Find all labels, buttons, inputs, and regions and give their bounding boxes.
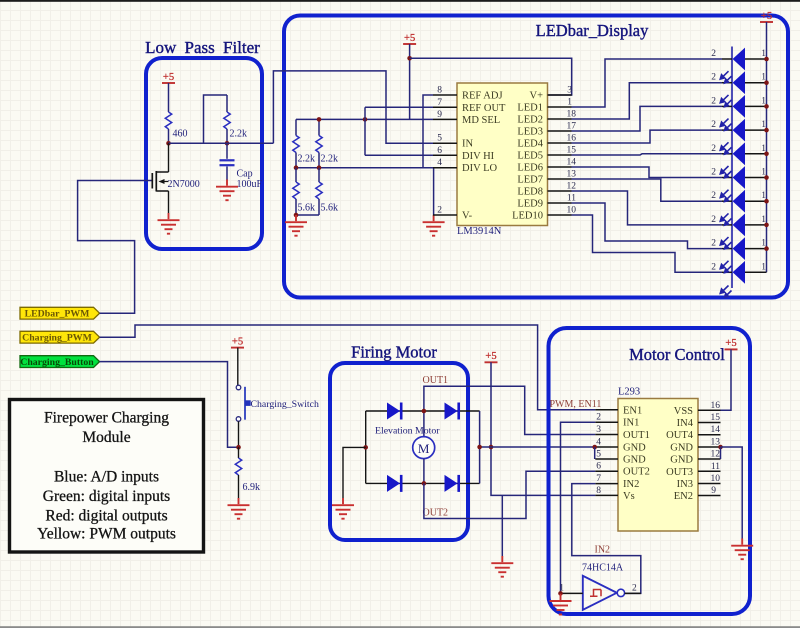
svg-text:Elevation Motor: Elevation Motor	[375, 426, 440, 437]
wire R2 top lead	[318, 119, 320, 135]
port LEDbar_PWM	[20, 307, 100, 319]
svg-text:5: 5	[596, 450, 601, 460]
transistor Q1 2N7000	[146, 171, 169, 192]
wire R4 bottom lead	[318, 199, 320, 215]
svg-text:1: 1	[567, 98, 572, 108]
junction GND pins 13-12	[718, 445, 723, 450]
wire divider mid rail to DIV LO pin 4	[296, 167, 433, 169]
wire LEDbar_PWM net	[78, 181, 146, 314]
wire Charging_Button net	[100, 362, 239, 448]
LED D9	[720, 237, 769, 260]
resistor R 5.6k #1	[293, 182, 299, 199]
wire switch to node	[238, 421, 240, 447]
svg-text:Charging_Switch: Charging_Switch	[251, 399, 319, 410]
bottom border line	[0, 626, 800, 628]
power +5 (bridge mid)	[485, 351, 498, 362]
pin stubs LM3914 left	[433, 95, 457, 215]
resistor R 2.2k #1	[293, 136, 299, 153]
LED D5	[720, 142, 769, 165]
junction mid R2	[317, 165, 322, 170]
ground (firing motor)	[332, 498, 354, 519]
svg-text:Green: digital inputs: Green: digital inputs	[43, 488, 170, 505]
svg-text:EN2: EN2	[674, 491, 693, 502]
wire staircase LED3	[572, 106, 723, 131]
ground (V-)	[423, 215, 445, 236]
wire LPF output horizontal	[169, 142, 274, 144]
junction switch node	[236, 445, 241, 450]
wire GND net bridge to L293	[480, 446, 596, 448]
svg-text:1: 1	[761, 191, 766, 201]
LED cathode bar line	[731, 47, 733, 289]
svg-text:OUT1: OUT1	[423, 375, 449, 386]
pin stubs LM3914 right	[548, 95, 572, 215]
svg-text:6: 6	[437, 146, 442, 156]
ground (divider)	[285, 215, 307, 236]
svg-text:2: 2	[596, 413, 601, 423]
svg-text:12: 12	[711, 450, 721, 460]
wire cap top lead	[226, 143, 228, 159]
svg-text:1: 1	[761, 168, 766, 178]
wire R1 top lead	[295, 119, 297, 135]
wire bridge left vertical	[365, 411, 367, 483]
svg-text:16: 16	[567, 134, 577, 144]
svg-text:2: 2	[711, 120, 716, 130]
svg-text:10: 10	[711, 474, 721, 484]
block frame Firing Motor	[330, 363, 468, 540]
svg-text:V-: V-	[462, 211, 473, 222]
wire R3 top lead	[295, 168, 297, 182]
svg-text:9: 9	[437, 110, 442, 120]
resistor R 5.6k #2	[316, 182, 322, 199]
junction divider bottom	[294, 213, 299, 218]
diode D8	[445, 475, 459, 492]
svg-text:GND: GND	[670, 443, 693, 454]
svg-text:REF OUT: REF OUT	[462, 103, 506, 114]
junction bridge right mid	[477, 445, 482, 450]
pin numbers L293 right	[711, 401, 721, 496]
wire REF OUT pin 7	[365, 106, 433, 108]
resistor 6.9k	[235, 458, 241, 475]
block frame Low Pass Filter	[146, 58, 262, 249]
block frame LEDbar_Display	[284, 16, 788, 298]
svg-text:DIV HI: DIV HI	[462, 151, 495, 162]
wire R2.2k to node B	[226, 129, 228, 143]
op-amp U1 LM3914N body	[457, 83, 548, 226]
wire Charging_PWM net	[100, 325, 596, 410]
junction +5 node	[407, 56, 412, 61]
svg-text:1: 1	[761, 120, 766, 130]
motor M1	[413, 411, 435, 483]
note box Firepower Charging Module	[10, 400, 204, 553]
power +5 (LPF)	[162, 72, 175, 83]
svg-text:Charging_PWM: Charging_PWM	[22, 333, 92, 344]
wire R460 to node	[168, 129, 170, 143]
wire staircase LED8	[572, 191, 723, 225]
svg-text:2: 2	[711, 191, 716, 201]
svg-text:3: 3	[567, 86, 572, 96]
junction GND pins 4-5	[592, 445, 597, 450]
svg-text:REF ADJ: REF ADJ	[462, 91, 503, 102]
svg-text:LED9: LED9	[517, 199, 543, 210]
svg-text:LED10: LED10	[512, 211, 543, 222]
junction motor bottom	[422, 481, 427, 486]
wire divider bottom rail	[296, 214, 319, 216]
wire staircase LED9	[572, 203, 723, 249]
wire REF ADJ to DIV LO	[423, 95, 433, 168]
pin numbers LM3914 right	[567, 86, 577, 216]
svg-text:DIV LO: DIV LO	[462, 163, 498, 174]
wire REF OUT / DIV HI tie vertical	[364, 107, 366, 155]
svg-text:OUT1: OUT1	[623, 430, 650, 441]
wire staircase LED4	[572, 130, 723, 143]
wire R2.2k top lead	[226, 95, 228, 112]
switch Charging_Switch	[236, 385, 251, 421]
svg-text:2.2k: 2.2k	[321, 154, 339, 165]
svg-text:IN2: IN2	[595, 545, 611, 556]
diode D5	[387, 403, 401, 420]
power +5 (switch)	[231, 336, 244, 347]
LED D10	[720, 261, 767, 284]
svg-text:6.9k: 6.9k	[243, 482, 261, 493]
svg-text:Low Pass Filter: Low Pass Filter	[145, 38, 260, 57]
top border line	[0, 0, 800, 2]
svg-text:2: 2	[437, 206, 442, 216]
svg-text:IN4: IN4	[677, 418, 694, 429]
svg-text:GND: GND	[623, 443, 646, 454]
svg-text:MD SEL: MD SEL	[462, 115, 500, 126]
wire VSS to +5	[721, 349, 732, 410]
pin names L293	[623, 405, 650, 502]
wire bridge bottom rail	[366, 482, 480, 484]
svg-text:OUT3: OUT3	[666, 467, 693, 478]
svg-text:2: 2	[711, 262, 716, 272]
junction inverter input	[558, 591, 563, 596]
svg-text:EN1: EN1	[623, 405, 642, 416]
junction divider top tie	[363, 117, 368, 122]
wire staircase LED2	[572, 83, 723, 119]
wire right GND to ground	[721, 447, 743, 539]
svg-text:11: 11	[711, 462, 720, 472]
wire bridge top rail	[366, 410, 480, 412]
wire OUT1 net	[424, 386, 595, 434]
svg-text:14: 14	[567, 158, 577, 168]
diode D6	[445, 403, 459, 420]
ground (cap)	[216, 180, 238, 201]
svg-text:4: 4	[437, 158, 442, 168]
svg-text:LEDbar_PWM: LEDbar_PWM	[25, 309, 90, 320]
svg-text:OUT2: OUT2	[423, 508, 449, 519]
wire R4 top lead	[318, 168, 320, 182]
wire bridge left to ground	[343, 447, 366, 498]
svg-text:LED5: LED5	[517, 151, 543, 162]
diode D7	[387, 475, 401, 492]
svg-text:LED4: LED4	[517, 139, 543, 150]
junction node B	[225, 141, 230, 146]
svg-text:GND: GND	[623, 455, 646, 466]
port Charging_Button	[20, 356, 100, 368]
wire staircase LED1	[572, 59, 723, 107]
svg-text:Firepower Charging: Firepower Charging	[44, 410, 169, 427]
wire R3 bottom lead	[295, 199, 297, 215]
svg-text:LEDbar_Display: LEDbar_Display	[536, 21, 649, 40]
svg-text:2: 2	[711, 239, 716, 249]
pin stubs L293 left	[595, 410, 618, 496]
pin stub inverter input	[561, 592, 583, 594]
LED D7	[720, 190, 769, 213]
svg-text:3: 3	[596, 425, 601, 435]
pin stub inverter output	[625, 592, 641, 594]
svg-text:2N7000: 2N7000	[168, 179, 200, 190]
ground (6.9k)	[228, 498, 250, 519]
svg-text:100uF: 100uF	[237, 179, 263, 190]
junction +5 on GND net	[489, 445, 494, 450]
pin numbers LM3914 left	[437, 86, 442, 216]
wire bridge right vertical	[479, 411, 481, 483]
wire pin5 tie	[594, 447, 596, 459]
junction node A	[166, 141, 171, 146]
wire +5 to switch	[237, 348, 239, 386]
svg-text:LM3914N: LM3914N	[457, 226, 502, 237]
wire staircase LED7	[572, 179, 723, 201]
wire over-bridge to R2.2k	[204, 95, 228, 143]
LED D1	[722, 48, 769, 71]
svg-text:Charging_Button: Charging_Button	[20, 357, 94, 368]
wire LPF out to IN pin 5	[273, 71, 433, 143]
svg-text:2: 2	[711, 73, 716, 83]
svg-text:Red: digital outputs: Red: digital outputs	[45, 507, 167, 524]
svg-text:1: 1	[761, 262, 766, 272]
svg-text:VSS: VSS	[674, 406, 693, 417]
resistor 460	[165, 112, 171, 129]
wire staircase LED5	[572, 154, 723, 155]
pin names LM3914	[462, 91, 506, 222]
wire +5 to V+ pin 3	[410, 58, 572, 95]
svg-text:15: 15	[711, 413, 721, 423]
junction divider top R2	[317, 117, 322, 122]
svg-text:LED6: LED6	[517, 163, 543, 174]
ground (L293 right)	[731, 539, 753, 560]
wire +5 to R460	[168, 83, 170, 112]
wire +5 drop to MD SEL	[409, 44, 411, 119]
inverter U3 74HC14A	[583, 576, 625, 610]
svg-text:2: 2	[711, 49, 716, 59]
junction motor top	[422, 409, 427, 414]
pin numbers LED column 1	[761, 49, 766, 272]
svg-text:7: 7	[596, 474, 601, 484]
svg-text:1: 1	[761, 239, 766, 249]
svg-text:IN1: IN1	[623, 418, 639, 429]
wire OUT2 net	[424, 471, 595, 518]
svg-text:LED7: LED7	[517, 175, 543, 186]
svg-text:16: 16	[711, 401, 721, 411]
wire cap bottom lead	[226, 167, 228, 181]
svg-text:2: 2	[632, 584, 637, 594]
svg-text:OUT2: OUT2	[623, 467, 650, 478]
svg-text:IN2: IN2	[623, 479, 639, 490]
svg-text:1: 1	[761, 215, 766, 225]
svg-text:IN: IN	[462, 139, 473, 150]
block frame Motor Control	[549, 328, 751, 614]
power +5 (LM3914)	[403, 33, 416, 44]
port Charging_PWM	[20, 331, 100, 343]
wire IN2 net from inverter	[572, 484, 641, 594]
pin numbers L293 left	[596, 413, 601, 496]
svg-text:LED2: LED2	[517, 115, 543, 126]
svg-text:2.2k: 2.2k	[298, 154, 316, 165]
ground (inverter input)	[550, 594, 572, 615]
svg-text:2: 2	[711, 96, 716, 106]
wire DIV HI pin 6	[365, 154, 433, 156]
svg-text:5.6k: 5.6k	[321, 203, 339, 214]
svg-text:2: 2	[711, 144, 716, 154]
ground (mid riser)	[491, 556, 513, 577]
svg-text:7: 7	[437, 98, 442, 108]
svg-text:18: 18	[567, 110, 577, 120]
svg-text:2: 2	[711, 215, 716, 225]
LED bottom extra arrows	[720, 286, 732, 298]
svg-text:4: 4	[596, 438, 601, 448]
svg-text:GND: GND	[670, 455, 693, 466]
svg-text:17: 17	[567, 122, 577, 132]
svg-text:LED3: LED3	[517, 127, 543, 138]
wire drain to node A	[168, 143, 170, 172]
svg-text:M: M	[418, 441, 430, 456]
wire staircase LED6	[572, 167, 723, 178]
LED D2	[720, 71, 769, 94]
resistor R 2.2k #2	[316, 136, 322, 153]
junction mid R1	[294, 165, 299, 170]
ground (2N7000 source)	[158, 213, 180, 234]
wire V- pin 2	[432, 214, 435, 216]
svg-text:Blue: A/D inputs: Blue: A/D inputs	[54, 469, 159, 486]
wire divider top rail	[296, 118, 433, 120]
wire source to ground	[168, 191, 170, 214]
wire R2 bottom lead	[318, 153, 320, 168]
wire R6.9k to ground	[238, 475, 240, 499]
wire node to R6.9k	[238, 447, 240, 458]
svg-text:1: 1	[761, 49, 766, 59]
svg-text:11: 11	[567, 194, 576, 204]
svg-text:PWM, EN11: PWM, EN11	[550, 399, 602, 410]
pin stubs L293 right	[698, 410, 721, 495]
wire ground riser	[501, 495, 503, 556]
svg-text:15: 15	[567, 146, 577, 156]
svg-text:8: 8	[437, 86, 442, 96]
svg-text:1: 1	[761, 73, 766, 83]
IC U2 L293 body	[618, 399, 698, 532]
svg-text:2: 2	[711, 168, 716, 178]
junction bridge left mid	[363, 445, 368, 450]
svg-text:12: 12	[567, 182, 577, 192]
wire pin12 tie	[720, 447, 722, 459]
wire V- tie to DIV LO rail	[433, 168, 435, 215]
svg-text:6: 6	[596, 462, 601, 472]
wire R1 bottom lead	[295, 153, 297, 168]
svg-text:Yellow: PWM outputs: Yellow: PWM outputs	[37, 526, 176, 543]
wire LED anode bus	[766, 22, 768, 272]
resistor 2.2k (LPF)	[224, 112, 230, 129]
svg-text:5.6k: 5.6k	[298, 203, 316, 214]
LED D8	[720, 213, 769, 236]
svg-text:V+: V+	[529, 91, 543, 102]
power +5 (LED bus)	[760, 11, 773, 22]
svg-text:5: 5	[437, 134, 442, 144]
svg-text:OUT4: OUT4	[666, 430, 694, 441]
LED D6	[720, 166, 769, 189]
svg-text:Motor Control: Motor Control	[629, 345, 725, 364]
svg-text:Cap: Cap	[237, 169, 253, 180]
wire staircase LED10	[572, 215, 723, 272]
LED D3	[720, 95, 769, 118]
svg-text:1: 1	[761, 96, 766, 106]
svg-text:13: 13	[567, 170, 577, 180]
svg-text:1: 1	[761, 144, 766, 154]
svg-text:LED8: LED8	[517, 187, 543, 198]
svg-text:2.2k: 2.2k	[230, 129, 248, 140]
svg-text:14: 14	[711, 425, 721, 435]
svg-text:L293: L293	[618, 387, 640, 398]
svg-text:LED1: LED1	[517, 103, 543, 114]
svg-text:Vs: Vs	[623, 491, 635, 502]
LED D4	[720, 119, 769, 142]
svg-text:10: 10	[567, 206, 577, 216]
svg-text:74HC14A: 74HC14A	[582, 563, 624, 574]
power +5 (VSS)	[725, 338, 738, 349]
svg-text:8: 8	[596, 486, 601, 496]
wire IN1 to inverter input	[561, 422, 596, 593]
svg-text:Firing Motor: Firing Motor	[351, 343, 437, 362]
pin numbers LED column 2	[711, 49, 716, 272]
capacitor Cap 100uF	[220, 160, 235, 165]
svg-text:9: 9	[711, 486, 716, 496]
svg-text:IN3: IN3	[677, 479, 693, 490]
svg-text:460: 460	[173, 129, 188, 140]
svg-text:Module: Module	[82, 429, 130, 446]
wire +5 drop to Vs	[491, 362, 595, 495]
